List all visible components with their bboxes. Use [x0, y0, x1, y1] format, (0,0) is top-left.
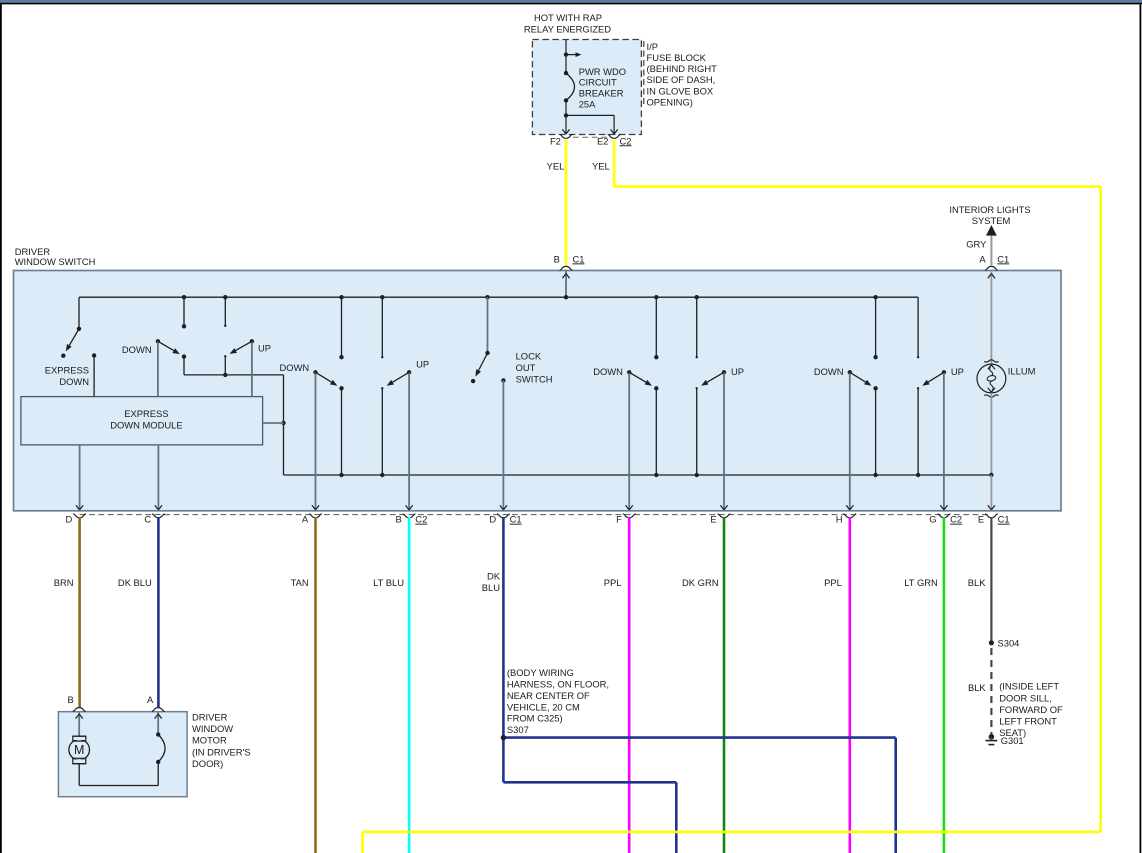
svg-text:UP: UP — [731, 366, 744, 377]
svg-text:F: F — [616, 514, 622, 525]
svg-text:(BEHIND RIGHT: (BEHIND RIGHT — [647, 63, 718, 74]
svg-text:LEFT FRONT: LEFT FRONT — [999, 716, 1057, 727]
svg-text:INTERIOR LIGHTS: INTERIOR LIGHTS — [949, 204, 1030, 215]
svg-text:DOWN: DOWN — [122, 344, 152, 355]
svg-text:PPL: PPL — [824, 577, 842, 588]
svg-text:DOWN: DOWN — [593, 366, 623, 377]
svg-text:DOOR): DOOR) — [192, 758, 223, 769]
svg-text:MOTOR: MOTOR — [192, 735, 227, 746]
svg-text:PWR WDO: PWR WDO — [579, 66, 626, 77]
svg-text:H: H — [836, 514, 843, 525]
svg-text:DOWN: DOWN — [59, 376, 89, 387]
svg-text:(BODY WIRING: (BODY WIRING — [507, 667, 574, 678]
svg-text:ILLUM: ILLUM — [1008, 366, 1036, 377]
svg-text:A: A — [979, 253, 986, 264]
svg-text:C1: C1 — [997, 253, 1009, 264]
svg-text:NEAR CENTER OF: NEAR CENTER OF — [507, 690, 590, 701]
svg-text:I/P: I/P — [647, 41, 658, 52]
svg-text:EXPRESS: EXPRESS — [124, 408, 168, 419]
svg-text:LT GRN: LT GRN — [904, 577, 938, 588]
svg-text:S304: S304 — [998, 638, 1020, 649]
svg-text:S307: S307 — [507, 724, 529, 735]
svg-text:G301: G301 — [1001, 735, 1024, 746]
svg-text:LT BLU: LT BLU — [373, 577, 404, 588]
svg-text:E: E — [710, 514, 716, 525]
svg-text:DRIVER: DRIVER — [192, 711, 228, 722]
svg-text:TAN: TAN — [291, 577, 309, 588]
svg-text:FUSE BLOCK: FUSE BLOCK — [647, 52, 707, 63]
svg-text:B: B — [396, 514, 402, 525]
svg-text:M: M — [74, 743, 84, 757]
svg-text:SYSTEM: SYSTEM — [972, 215, 1011, 226]
svg-text:25A: 25A — [579, 98, 596, 109]
svg-text:WINDOW SWITCH: WINDOW SWITCH — [15, 256, 96, 267]
svg-text:C1: C1 — [510, 514, 522, 525]
svg-text:B: B — [68, 694, 74, 705]
svg-text:UP: UP — [258, 343, 271, 354]
svg-text:WINDOW: WINDOW — [192, 723, 233, 734]
svg-text:DK GRN: DK GRN — [682, 577, 718, 588]
svg-text:EXPRESS: EXPRESS — [45, 365, 89, 376]
svg-text:OPENING): OPENING) — [647, 96, 693, 107]
svg-text:BREAKER: BREAKER — [579, 88, 624, 99]
svg-text:(IN DRIVER'S: (IN DRIVER'S — [192, 746, 251, 757]
svg-text:D: D — [66, 514, 73, 525]
svg-text:HOT WITH RAP: HOT WITH RAP — [534, 12, 602, 23]
svg-text:CIRCUIT: CIRCUIT — [579, 77, 617, 88]
svg-text:DOWN: DOWN — [280, 362, 310, 373]
svg-text:OUT: OUT — [516, 362, 536, 373]
svg-text:SIDE OF DASH,: SIDE OF DASH, — [647, 74, 716, 85]
svg-text:GRY: GRY — [966, 238, 987, 249]
svg-text:BLK: BLK — [968, 577, 986, 588]
svg-text:IN GLOVE BOX: IN GLOVE BOX — [647, 85, 714, 96]
svg-text:(INSIDE LEFT: (INSIDE LEFT — [999, 681, 1059, 692]
svg-text:C2: C2 — [415, 514, 427, 525]
svg-text:RELAY ENERGIZED: RELAY ENERGIZED — [524, 23, 611, 34]
svg-text:SWITCH: SWITCH — [516, 373, 553, 384]
svg-text:F2: F2 — [550, 135, 561, 146]
svg-text:C: C — [144, 514, 151, 525]
svg-text:E2: E2 — [597, 135, 608, 146]
svg-text:E: E — [978, 514, 984, 525]
svg-text:DK: DK — [487, 571, 501, 582]
svg-text:BRN: BRN — [54, 577, 74, 588]
svg-text:DOOR SILL,: DOOR SILL, — [999, 692, 1052, 703]
svg-text:VEHICLE, 20 CM: VEHICLE, 20 CM — [507, 701, 580, 712]
svg-text:B: B — [554, 253, 560, 264]
svg-text:FROM C325): FROM C325) — [507, 713, 563, 724]
svg-text:DK BLU: DK BLU — [118, 577, 152, 588]
svg-text:FORWARD OF: FORWARD OF — [999, 704, 1063, 715]
svg-text:LOCK: LOCK — [516, 351, 542, 362]
svg-text:UP: UP — [951, 366, 964, 377]
svg-text:YEL: YEL — [592, 160, 610, 171]
svg-text:HARNESS, ON FLOOR,: HARNESS, ON FLOOR, — [507, 678, 609, 689]
svg-text:PPL: PPL — [604, 577, 622, 588]
svg-text:YEL: YEL — [547, 160, 565, 171]
svg-text:BLK: BLK — [968, 682, 986, 693]
svg-text:D: D — [489, 514, 496, 525]
svg-text:C2: C2 — [620, 135, 632, 146]
svg-text:G: G — [929, 514, 936, 525]
svg-text:C1: C1 — [998, 514, 1010, 525]
svg-text:BLU: BLU — [482, 582, 500, 593]
svg-text:DOWN MODULE: DOWN MODULE — [110, 419, 182, 430]
svg-text:A: A — [302, 514, 309, 525]
svg-text:C1: C1 — [573, 253, 585, 264]
svg-text:C2: C2 — [950, 514, 962, 525]
svg-text:UP: UP — [416, 359, 429, 370]
svg-text:A: A — [147, 694, 154, 705]
svg-text:DOWN: DOWN — [814, 366, 844, 377]
